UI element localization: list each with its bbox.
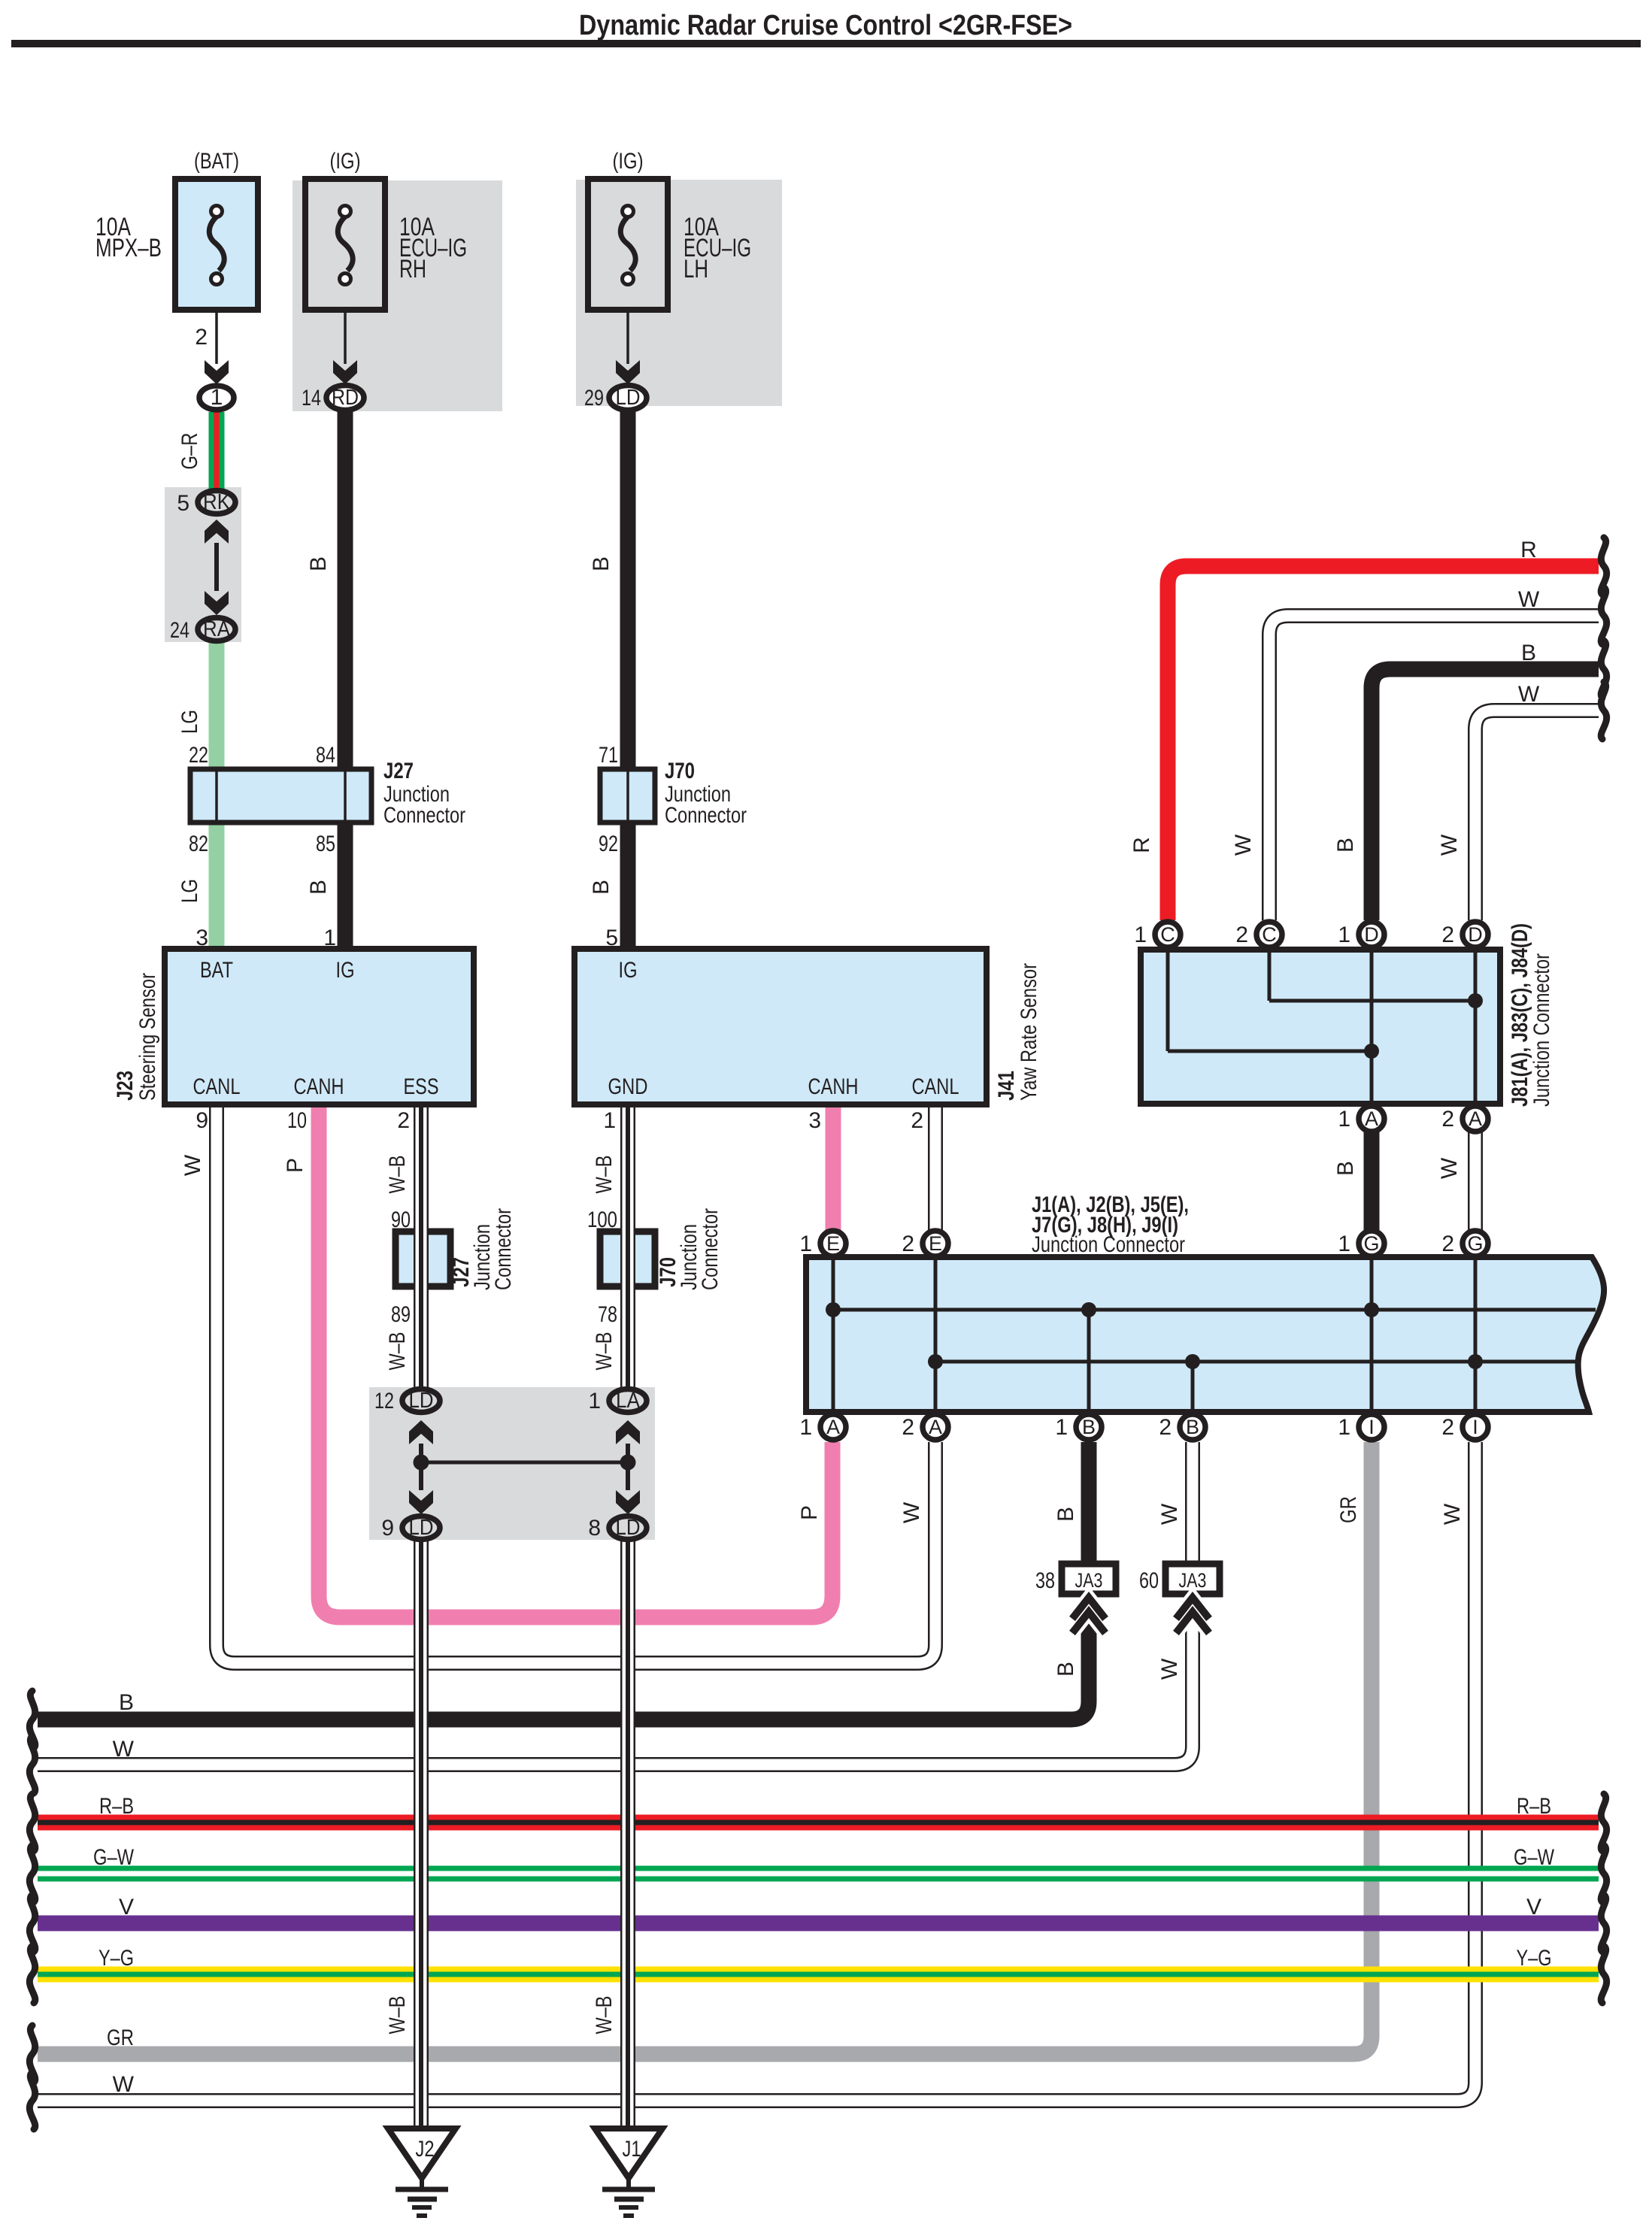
svg-text:W: W — [1437, 834, 1462, 856]
svg-text:LD: LD — [616, 1516, 641, 1540]
J1 pin circle 1E — [820, 1231, 846, 1256]
bus wire G-W — [38, 1866, 1599, 1882]
svg-text:5: 5 — [605, 926, 618, 950]
svg-text:G–W: G–W — [1514, 1845, 1555, 1870]
svg-text:22: 22 — [189, 743, 208, 768]
connector 1 oval — [199, 385, 234, 410]
arrow into connector 1 — [205, 360, 229, 384]
connector JA3 pin 60 — [1165, 1564, 1220, 1633]
label 10A ECU-IG LH — [684, 213, 751, 283]
svg-text:LA: LA — [616, 1389, 641, 1413]
svg-text:G–W: G–W — [93, 1845, 135, 1870]
svg-text:60: 60 — [1139, 1568, 1159, 1593]
svg-text:J27: J27 — [383, 759, 414, 783]
svg-text:(IG): (IG) — [330, 149, 361, 174]
svg-text:W: W — [1157, 1658, 1182, 1680]
wire W (CANL) from J23 steering sensor to J1 pin 2A — [217, 1104, 935, 1663]
svg-text:CANH: CANH — [294, 1074, 344, 1099]
svg-text:2: 2 — [1235, 923, 1248, 947]
svg-text:LG: LG — [177, 879, 202, 903]
J81 pin circle 1A — [1359, 1106, 1384, 1132]
J1 pin numbers bottom — [799, 1415, 1454, 1440]
J1 pin numbers top — [799, 1232, 1454, 1256]
svg-text:J2: J2 — [416, 2137, 435, 2162]
svg-text:A: A — [1365, 1107, 1378, 1130]
wire P (CANH) from J41 yaw rate sensor to J1 pin 1E — [826, 1104, 841, 1230]
svg-text:G: G — [1467, 1232, 1483, 1255]
svg-text:LH: LH — [684, 255, 708, 283]
wire B from J1 pin 1B to JA3 38 — [1081, 1442, 1097, 1565]
svg-text:Y–G: Y–G — [1517, 1946, 1552, 1971]
svg-text:LG: LG — [177, 710, 202, 734]
wire W-B (GND) lower segment to ground J1 — [620, 1526, 635, 2128]
J1 pin circle 1G — [1359, 1231, 1384, 1256]
J81 pin circle 1C — [1155, 922, 1181, 947]
J1 pin circle 1B — [1076, 1414, 1102, 1440]
J1 pin circle 1A — [820, 1414, 846, 1440]
svg-text:1: 1 — [799, 1232, 812, 1256]
svg-text:1: 1 — [1338, 923, 1350, 947]
svg-text:2: 2 — [902, 1232, 914, 1256]
svg-text:1: 1 — [799, 1415, 812, 1440]
svg-text:W: W — [113, 1737, 135, 1762]
svg-text:90: 90 — [391, 1207, 411, 1232]
svg-text:R–B: R–B — [1517, 1794, 1551, 1819]
wire B from J81 pin 1A to J1 pin 1G — [1364, 1132, 1380, 1230]
svg-text:D: D — [1468, 923, 1483, 946]
connector link RK to RA with arrows — [205, 520, 229, 615]
svg-text:CANH: CANH — [808, 1074, 859, 1099]
svg-text:1: 1 — [1338, 1415, 1350, 1440]
svg-text:2: 2 — [1441, 1232, 1454, 1256]
svg-text:D: D — [1364, 923, 1379, 946]
svg-text:B: B — [1521, 641, 1536, 665]
J81 pin numbers bottom — [1338, 1107, 1454, 1132]
svg-text:10: 10 — [287, 1108, 307, 1133]
svg-text:LD: LD — [409, 1516, 434, 1540]
svg-text:A: A — [1469, 1107, 1482, 1130]
wire B from connector RD to J23 IG — [338, 412, 353, 949]
svg-text:V: V — [119, 1895, 134, 1919]
svg-text:(IG): (IG) — [613, 149, 644, 174]
svg-text:E: E — [929, 1232, 942, 1255]
J23 terminal labels — [193, 958, 439, 1099]
svg-text:89: 89 — [391, 1302, 411, 1327]
svg-text:W–B: W–B — [592, 1156, 617, 1194]
svg-text:29: 29 — [584, 386, 604, 411]
connector RK oval — [198, 490, 235, 514]
svg-text:2: 2 — [1441, 923, 1454, 947]
svg-text:8: 8 — [588, 1516, 601, 1541]
svg-text:MPX–B: MPX–B — [95, 234, 162, 262]
yaw rate sensor J41 box — [574, 949, 987, 1104]
wire lead fuse ECU-IG LH to connector LD — [626, 284, 629, 364]
svg-text:GR: GR — [1336, 1496, 1361, 1523]
label J27 junction connector lower — [449, 1208, 516, 1290]
svg-text:IG: IG — [336, 958, 355, 983]
label J1 junction connector — [1032, 1192, 1189, 1257]
J1 pin circle 2A — [923, 1414, 948, 1440]
svg-text:GND: GND — [608, 1074, 648, 1099]
wire break symbols right edge — [1601, 538, 1606, 2003]
title rule — [11, 40, 1641, 47]
svg-text:W: W — [1440, 1503, 1465, 1525]
connector LD oval (29) — [609, 386, 647, 411]
svg-text:RH: RH — [399, 255, 426, 283]
svg-text:1: 1 — [588, 1389, 601, 1413]
shade panel behind connectors RK/RA — [165, 487, 241, 642]
J81 pin circle 2C — [1256, 922, 1282, 947]
svg-text:Connector: Connector — [665, 803, 747, 828]
wire W-B (GND) from J41 upper segment — [620, 1104, 635, 1403]
svg-text:R–B: R–B — [99, 1794, 134, 1819]
svg-text:R: R — [1129, 837, 1154, 853]
J1 pin circle 2E — [923, 1231, 948, 1256]
ground J1 — [595, 2128, 662, 2216]
svg-text:W: W — [1518, 587, 1540, 612]
label 10A MPX-B — [95, 213, 162, 262]
svg-text:CANL: CANL — [912, 1074, 959, 1099]
label 60 JA3 — [1139, 1568, 1207, 1593]
connector RD oval — [326, 386, 364, 411]
J41 terminal labels — [608, 958, 959, 1099]
svg-text:R: R — [1520, 538, 1537, 562]
svg-text:W–B: W–B — [385, 1156, 410, 1194]
svg-text:B: B — [1082, 1416, 1096, 1438]
svg-text:CANL: CANL — [193, 1074, 241, 1099]
svg-text:LD: LD — [616, 386, 641, 410]
svg-text:1: 1 — [1338, 1232, 1350, 1256]
svg-text:W–B: W–B — [385, 1332, 410, 1371]
svg-text:1: 1 — [1055, 1415, 1068, 1440]
wire lead fuse MPX-B to connector 1 — [215, 284, 218, 364]
wire W from right edge to J81 pin 2D — [1475, 710, 1599, 920]
svg-text:G: G — [1363, 1232, 1379, 1255]
svg-text:P: P — [283, 1158, 308, 1173]
junction connector J27 (lower) — [396, 1232, 450, 1286]
svg-text:B: B — [306, 556, 331, 571]
svg-text:1: 1 — [603, 1108, 616, 1133]
crossover line between LD columns — [421, 1461, 628, 1465]
svg-text:9: 9 — [196, 1108, 208, 1133]
svg-text:W: W — [1437, 1157, 1462, 1179]
junction connector J27 (upper) — [190, 769, 371, 823]
junction connector J1/J2/J5/J7/J8/J9 box — [806, 1257, 1604, 1412]
connector LD oval (8) — [609, 1516, 647, 1540]
svg-text:GR: GR — [107, 2025, 134, 2050]
wire lead fuse ECU-IG RH to connector RD — [344, 284, 347, 364]
svg-text:J1: J1 — [623, 2137, 641, 2162]
steering sensor J23 box — [165, 949, 474, 1104]
svg-text:B: B — [119, 1690, 134, 1715]
connector JA3 pin 38 — [1062, 1564, 1116, 1633]
ground J2 — [388, 2128, 456, 2216]
svg-text:2: 2 — [397, 1108, 410, 1133]
svg-text:B: B — [1053, 1507, 1078, 1522]
svg-text:38: 38 — [1035, 1568, 1055, 1593]
svg-text:B: B — [589, 556, 614, 571]
svg-text:RA: RA — [203, 617, 231, 641]
svg-text:W: W — [1157, 1503, 1182, 1525]
svg-text:W: W — [899, 1501, 924, 1523]
wire G-R from connector 1 to connector RK — [209, 412, 225, 489]
fuse 10A MPX-B — [175, 179, 258, 310]
wire W (CANL) from J41 yaw rate sensor to J1 pin 2E — [928, 1104, 943, 1230]
label 38 JA3 — [1035, 1568, 1103, 1593]
svg-text:RK: RK — [203, 490, 231, 514]
connector RA oval — [198, 617, 235, 641]
wire B from connector LD to J41 IG — [620, 412, 636, 949]
svg-text:A: A — [929, 1416, 942, 1438]
bus wire Y-G — [38, 1967, 1599, 1983]
svg-text:2: 2 — [1441, 1107, 1454, 1132]
shade panel behind connectors LD/LA — [369, 1387, 655, 1540]
label J70 junction connector upper — [665, 759, 747, 828]
svg-text:1: 1 — [323, 926, 336, 950]
svg-text:B: B — [1053, 1662, 1078, 1677]
svg-text:C: C — [1160, 923, 1175, 946]
wire W from J1 pin 2B to JA3 60 — [1185, 1442, 1200, 1565]
wire break symbols left edge — [29, 1691, 35, 2129]
junction connector J70 (upper) — [600, 769, 655, 823]
svg-text:100: 100 — [587, 1207, 617, 1232]
arrow into connector RD — [333, 360, 357, 384]
title: Dynamic Radar Cruise Control <2GR-FSE> — [579, 10, 1072, 41]
svg-text:W–B: W–B — [385, 1996, 410, 2035]
connector LD oval (9) — [402, 1516, 440, 1540]
J1 pin circle 2G — [1463, 1231, 1488, 1256]
wire W from right edge to J81 pin 2C — [1269, 616, 1599, 920]
svg-text:1: 1 — [1338, 1107, 1350, 1132]
svg-text:B: B — [1333, 838, 1358, 853]
connector link LD 12 to LD 9 with arrows and crossover — [409, 1420, 433, 1514]
shade panel behind fuse ECU-IG RH — [293, 180, 502, 411]
svg-text:JA3: JA3 — [1075, 1569, 1103, 1592]
svg-text:2: 2 — [195, 325, 208, 350]
fuse 10A ECU-IG LH — [588, 179, 668, 310]
svg-text:Junction Connector: Junction Connector — [1529, 953, 1554, 1107]
svg-text:W: W — [1518, 682, 1540, 707]
svg-text:84: 84 — [316, 743, 335, 768]
wire W-B (ESS) from J23 to ground J2, upper segment — [414, 1104, 429, 1403]
svg-text:P: P — [797, 1505, 822, 1520]
wire P (CANH) from J23 steering sensor to J1 pin 1A — [319, 1104, 832, 1617]
wire W bus from JA3 60 to left edge — [38, 1592, 1193, 1765]
svg-text:V: V — [1526, 1895, 1541, 1919]
wire W from J1 pin 2I to left edge bus — [38, 1442, 1475, 2101]
J1 pin circle 2I — [1463, 1414, 1488, 1440]
svg-text:3: 3 — [196, 926, 208, 950]
svg-text:Connector: Connector — [491, 1208, 516, 1290]
label J27 junction connector upper — [383, 759, 465, 828]
svg-text:B: B — [589, 880, 614, 895]
wire W from J81 pin 2A to J1 pin 2G — [1468, 1132, 1483, 1230]
svg-text:Steering Sensor: Steering Sensor — [135, 973, 160, 1101]
J1 pin circle 1I — [1359, 1414, 1384, 1440]
svg-text:J41: J41 — [994, 1071, 1019, 1101]
connector LD oval (12) — [402, 1389, 440, 1413]
svg-text:78: 78 — [598, 1302, 617, 1327]
svg-text:LD: LD — [409, 1389, 434, 1413]
junction connector J81/J83/J84 box — [1141, 950, 1500, 1104]
svg-text:1: 1 — [1134, 923, 1147, 947]
svg-text:2: 2 — [1441, 1415, 1454, 1440]
J81 pin numbers top — [1134, 923, 1454, 947]
svg-text:24: 24 — [170, 618, 189, 643]
svg-text:5: 5 — [177, 491, 189, 516]
fuse 10A ECU-IG RH — [305, 179, 385, 310]
svg-text:BAT: BAT — [200, 958, 233, 983]
bus wire V — [38, 1916, 1599, 1932]
svg-text:B: B — [306, 880, 331, 895]
svg-text:B: B — [1186, 1416, 1199, 1438]
svg-text:W: W — [180, 1154, 205, 1176]
svg-text:Connector: Connector — [698, 1208, 723, 1290]
svg-text:W: W — [113, 2072, 135, 2097]
connector LA oval (1) — [609, 1389, 647, 1413]
J81 pin circle 2A — [1463, 1106, 1488, 1132]
svg-text:W: W — [1231, 834, 1256, 856]
wire R from right edge to J81 pin 1C — [1168, 566, 1599, 920]
svg-text:2: 2 — [1159, 1415, 1172, 1440]
svg-text:I: I — [1472, 1416, 1478, 1438]
J81 pin circle 2D — [1463, 922, 1488, 947]
label J70 junction connector lower — [656, 1208, 723, 1290]
svg-text:Dynamic Radar Cruise Control <: Dynamic Radar Cruise Control <2GR-FSE> — [579, 10, 1072, 41]
svg-text:Yaw Rate Sensor: Yaw Rate Sensor — [1017, 963, 1041, 1101]
wire LG from connector RA to J23 BAT — [209, 643, 225, 949]
wire B from right edge to J81 pin 1D — [1372, 669, 1599, 920]
svg-text:82: 82 — [189, 832, 208, 856]
bus wire R-B — [38, 1815, 1599, 1831]
junction connector J70 (lower) — [600, 1232, 655, 1286]
svg-text:W–B: W–B — [592, 1996, 617, 2035]
svg-text:J23: J23 — [113, 1071, 138, 1101]
svg-text:ESS: ESS — [404, 1074, 439, 1099]
svg-text:Connector: Connector — [383, 803, 465, 828]
svg-text:IG: IG — [619, 958, 638, 983]
svg-text:RD: RD — [332, 386, 359, 410]
svg-text:(BAT): (BAT) — [194, 149, 239, 174]
svg-text:12: 12 — [374, 1389, 394, 1413]
svg-text:1: 1 — [211, 385, 223, 410]
svg-text:92: 92 — [599, 832, 618, 856]
arrow into connector LD — [616, 360, 640, 384]
svg-text:2: 2 — [902, 1415, 914, 1440]
svg-text:I: I — [1369, 1416, 1375, 1438]
wire GR from J1 pin 1I to left edge bus — [38, 1442, 1372, 2054]
svg-text:A: A — [826, 1416, 840, 1438]
svg-text:W–B: W–B — [592, 1332, 617, 1371]
svg-text:JA3: JA3 — [1179, 1569, 1207, 1592]
label 10A ECU-IG RH — [399, 213, 467, 283]
svg-text:C: C — [1262, 923, 1277, 946]
wire W-B (ESS) lower segment to ground J2 — [414, 1526, 429, 2128]
connector link LA 1 to LD 8 with arrows — [616, 1420, 640, 1514]
svg-text:3: 3 — [808, 1108, 821, 1133]
svg-text:9: 9 — [381, 1516, 394, 1541]
shade panel behind fuse ECU-IG LH — [576, 180, 782, 406]
J81 pin circle 1D — [1359, 922, 1384, 947]
svg-text:Junction Connector: Junction Connector — [1032, 1232, 1185, 1257]
svg-text:G–R: G–R — [177, 433, 202, 470]
J1 pin circle 2B — [1180, 1414, 1205, 1440]
svg-text:71: 71 — [599, 743, 618, 768]
svg-text:14: 14 — [302, 386, 321, 411]
svg-text:Y–G: Y–G — [99, 1946, 134, 1971]
wire B bus from JA3 38 to left edge — [38, 1592, 1089, 1719]
svg-text:J70: J70 — [665, 759, 695, 783]
svg-text:B: B — [1333, 1161, 1358, 1176]
svg-text:85: 85 — [316, 832, 335, 856]
svg-text:2: 2 — [911, 1108, 923, 1133]
svg-text:E: E — [826, 1232, 840, 1255]
